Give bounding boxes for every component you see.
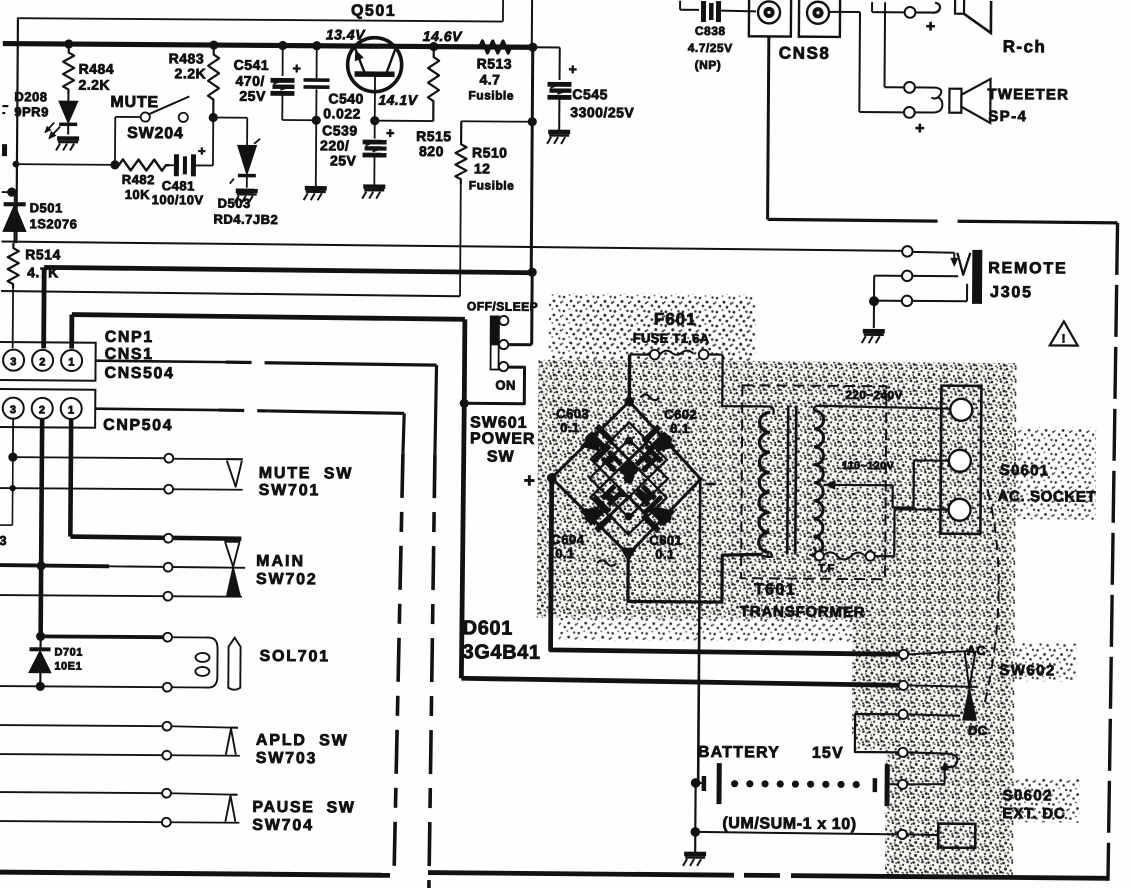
wire C481 up to SW204 node — [212, 118, 214, 166]
node bridge top — [625, 397, 634, 406]
node bus-R484 — [64, 39, 73, 48]
svg-text:D501: D501 — [30, 200, 63, 215]
fuse F601 — [630, 353, 650, 355]
terminal SW701 bottom — [164, 485, 173, 494]
node bus-C540 — [312, 41, 321, 50]
svg-text:14.6V: 14.6V — [423, 28, 463, 44]
ground battery — [694, 832, 696, 852]
wire SW703 row2 — [0, 754, 163, 755]
svg-text:REMOTE: REMOTE — [988, 260, 1067, 278]
svg-text:F601: F601 — [654, 310, 697, 329]
wire SW601 net to SW602 AC2 — [461, 678, 903, 685]
svg-text:T601: T601 — [754, 581, 796, 598]
transistor Q501 — [347, 37, 401, 91]
svg-text:C603: C603 — [556, 406, 589, 421]
terminal SW704 bottom — [162, 818, 171, 827]
wire CNS8 A down to chain — [768, 36, 769, 219]
wire top edge to R-ch terminal — [871, 2, 873, 12]
ground below C545 — [548, 130, 570, 135]
node bridge bottom — [621, 548, 635, 560]
resistor R510 fusible — [455, 121, 466, 184]
wire SOL701 row1 thick — [41, 634, 164, 639]
svg-text:DC: DC — [968, 723, 988, 738]
svg-text:R482: R482 — [122, 172, 155, 187]
ground below C540 — [305, 186, 327, 191]
svg-text:+: + — [915, 120, 925, 137]
halftone shading SW602 label — [1014, 643, 1076, 681]
wire SW701 row1 — [13, 457, 165, 458]
wire bus out to C545 — [533, 46, 560, 48]
section border bottom right — [428, 873, 734, 876]
svg-text:C602: C602 — [664, 407, 697, 422]
transformer core — [787, 406, 788, 555]
svg-text:D208: D208 — [14, 89, 47, 104]
wire battery minus down — [694, 783, 697, 832]
wire SW702 row3 — [0, 595, 242, 597]
capacitor C539 — [374, 121, 376, 139]
resistor R484 — [63, 43, 74, 93]
thermal fuse T.F — [815, 551, 824, 560]
power switch SW601 body — [490, 315, 500, 344]
terminal SW602 c3 — [898, 710, 907, 719]
diode D501 — [7, 187, 16, 196]
wire CNP504 pin1 down to SW702 — [68, 419, 73, 537]
AC squiggle top — [640, 395, 659, 401]
svg-text:+: + — [386, 125, 395, 141]
resistor R483 — [208, 44, 220, 117]
svg-text:SOL701: SOL701 — [259, 648, 330, 665]
terminal REMOTE ring — [902, 271, 912, 281]
wire bridge plus output — [551, 478, 905, 654]
svg-text:SW204: SW204 — [127, 125, 184, 142]
wire SW601 mid to vertical — [509, 343, 532, 346]
resistor R514 — [8, 243, 19, 288]
switch SW703 contact — [226, 729, 236, 755]
wire Q501 base down — [374, 74, 376, 121]
wire SW703 row1 — [0, 725, 163, 726]
AC squiggle bottom — [597, 560, 616, 566]
diode D208 (LED) — [67, 92, 69, 102]
capacitor C541 — [282, 45, 284, 76]
wire SW204 left down to R482 — [114, 117, 116, 165]
svg-text:C838: C838 — [695, 24, 726, 38]
diode D701 — [39, 636, 41, 647]
svg-text:25V: 25V — [330, 152, 357, 168]
svg-text:15V: 15V — [812, 745, 844, 762]
terminal SW602 ac1 — [899, 650, 908, 659]
halftone shading AC socket label area — [1013, 427, 1096, 520]
node battery bottom — [690, 827, 700, 837]
switch SW602 blade — [964, 651, 975, 689]
svg-text:S0601: S0601 — [1000, 462, 1049, 479]
cable CNS504 turns down as divider — [435, 365, 437, 454]
wire SW601 on contact to D601 net — [464, 367, 524, 404]
capacitor C838 — [701, 1, 706, 22]
wire top edge to C838 — [679, 1, 681, 10]
ground below D503 — [236, 188, 258, 193]
svg-text:+: + — [926, 19, 936, 36]
wire SW701 row2 — [0, 488, 165, 489]
node bridge left — [547, 473, 556, 482]
wire main vertical 14.6V down — [531, 47, 533, 271]
wire remote ring — [874, 275, 902, 277]
node SW701 row1 — [8, 453, 17, 462]
wire bridge minus output down — [698, 479, 700, 783]
wire CNP504 pin2 down (thick) — [41, 418, 43, 636]
bridge rectifier D601 outline — [551, 401, 701, 555]
svg-text:2.2K: 2.2K — [175, 65, 207, 81]
jack contact arrow — [944, 769, 946, 784]
terminal SW701 top — [164, 454, 173, 463]
svg-text:3G4B41: 3G4B41 — [462, 641, 540, 664]
svg-text:C539: C539 — [322, 122, 358, 138]
socket terminal 220V — [950, 399, 972, 421]
svg-text:AC. SOCKET: AC. SOCKET — [998, 488, 1097, 506]
terminal SW602 c5 — [898, 780, 907, 789]
wire c3-c4 link — [855, 714, 899, 752]
svg-text:R514: R514 — [25, 246, 61, 262]
node bus-C541 — [278, 41, 287, 50]
svg-text:220~240V: 220~240V — [845, 388, 903, 402]
wire thick net y316 from CNS1 pin1 — [72, 315, 465, 320]
wire bottom row to c6 — [695, 832, 898, 834]
svg-text:100/10V: 100/10V — [152, 192, 204, 207]
bridge diode bottom-left — [579, 495, 611, 527]
svg-text:R484: R484 — [79, 61, 115, 77]
wire remote tip to jack — [912, 251, 954, 254]
node SW702 row2 junction — [37, 561, 46, 570]
svg-text:FUSE T1.6A: FUSE T1.6A — [633, 330, 710, 346]
svg-text:820: 820 — [419, 143, 444, 159]
svg-text:SW703: SW703 — [256, 750, 318, 767]
wire C540 node to ground — [315, 120, 317, 186]
node bus-R513 out — [528, 43, 537, 52]
svg-text:470/: 470/ — [235, 73, 264, 89]
svg-text:EXT. DC: EXT. DC — [1002, 805, 1065, 822]
wire tweeter top to speaker — [914, 87, 941, 98]
node SOL row top — [36, 632, 45, 641]
LED arrows D208 — [49, 126, 60, 138]
pin 2 CNP504 — [32, 398, 53, 419]
wire C541 bottom to C540 node — [282, 119, 316, 121]
halftone shading around F601 — [549, 293, 755, 364]
jack contact S0602 hook — [908, 752, 958, 767]
terminal SW602 c6 — [898, 830, 907, 839]
node Q501 base / C539 — [370, 116, 379, 125]
svg-text:R513: R513 — [477, 55, 513, 71]
wire SW704 row2 — [0, 821, 162, 822]
svg-text:2: 2 — [39, 404, 46, 416]
svg-text:D601: D601 — [463, 617, 513, 639]
section border bottom left — [0, 872, 390, 875]
svg-text:2: 2 — [39, 356, 46, 368]
pin 3 CNS1 — [3, 350, 24, 371]
svg-text:!: ! — [1061, 331, 1066, 345]
resistor R515 — [428, 46, 440, 121]
speaker R-ch horn — [955, 0, 964, 14]
wire fuse right down to primary — [722, 355, 768, 407]
svg-text:TRANSFORMER: TRANSFORMER — [740, 603, 866, 621]
halftone shading S0602 label — [1013, 778, 1079, 822]
Q501 callout box top line — [17, 18, 503, 21]
wire ring to V — [912, 275, 958, 277]
svg-text:SW702: SW702 — [256, 571, 318, 588]
svg-text:110~120V: 110~120V — [842, 460, 895, 472]
svg-text:3: 3 — [10, 356, 17, 368]
svg-text:D503: D503 — [218, 196, 251, 211]
svg-text:Q501: Q501 — [351, 2, 396, 19]
secondary tap arrow 110-120V — [824, 484, 893, 487]
terminal SW702 mid — [164, 563, 173, 572]
wire R510 branch — [461, 120, 532, 122]
svg-text:APLD SW: APLD SW — [256, 732, 349, 750]
svg-text:RD4.7JB2: RD4.7JB2 — [214, 212, 279, 227]
capacitor C601 symbol — [641, 506, 668, 533]
svg-text:3: 3 — [0, 533, 7, 548]
node remote ground — [869, 296, 879, 306]
bridge diode top-left — [580, 431, 612, 463]
terminal REMOTE tip — [902, 246, 912, 256]
svg-text:3: 3 — [10, 404, 17, 416]
svg-text:+: + — [569, 61, 578, 77]
wire SW204 to D503 — [213, 117, 247, 119]
switch SW702 contact — [224, 541, 240, 543]
svg-text:0.1: 0.1 — [555, 546, 575, 561]
speaker tweeter SP-4 — [949, 89, 961, 113]
transformer T601 secondary winding — [813, 411, 824, 555]
node bus-R483 — [209, 40, 218, 49]
svg-text:S0602: S0602 — [1002, 787, 1052, 804]
battery B601 — [696, 782, 702, 784]
svg-text:CNS504: CNS504 — [104, 365, 174, 382]
halftone shading main power area — [537, 360, 1017, 621]
capacitor C604 symbol — [587, 506, 614, 533]
solenoid SOL701 coil — [204, 637, 217, 687]
svg-text:1: 1 — [68, 357, 75, 369]
cable CNP504 dashed right — [95, 409, 218, 410]
svg-text:SP-4: SP-4 — [988, 108, 1027, 125]
wire thermal fuse to socket bottom — [874, 509, 948, 557]
wire bridge bottom to primary bottom — [628, 553, 761, 602]
svg-text:1S2076: 1S2076 — [29, 216, 77, 231]
svg-text:Fusible: Fusible — [469, 178, 515, 192]
svg-text:C540: C540 — [328, 90, 364, 106]
svg-text:SW601: SW601 — [470, 414, 528, 431]
ground below D208 — [57, 136, 79, 141]
terminal SOL701 bottom — [163, 683, 172, 692]
svg-text:(NP): (NP) — [695, 58, 722, 72]
terminal SW703 bottom — [162, 751, 171, 760]
wire R510 down to net — [459, 184, 462, 296]
node row2 crossing — [9, 485, 15, 491]
dashed link socket to SW602 — [983, 490, 999, 709]
svg-text:C601: C601 — [649, 533, 682, 548]
wire secondary top to socket 220-240V — [814, 406, 950, 412]
wire sleeve to jack body — [874, 300, 902, 302]
svg-text:MAIN: MAIN — [256, 553, 305, 570]
resistor R513 fusible — [458, 41, 533, 54]
switch SW704 contact — [225, 796, 235, 822]
capacitor C481 — [174, 154, 179, 176]
socket terminal 110V — [949, 450, 971, 472]
dashed box around T601 — [741, 385, 886, 579]
resistor R482 — [115, 159, 170, 170]
svg-text:PAUSE SW: PAUSE SW — [252, 799, 355, 817]
terminal tweeter minus — [904, 107, 915, 118]
svg-text:CNS8: CNS8 — [779, 43, 831, 62]
node SW601 net junction — [460, 399, 469, 408]
svg-text:9PR9: 9PR9 — [14, 104, 49, 119]
svg-text:0.022: 0.022 — [323, 105, 361, 121]
white pocket battery label — [691, 736, 856, 837]
terminal REMOTE sleeve — [902, 296, 912, 306]
capacitor C540 — [316, 45, 318, 78]
svg-text:T.F: T.F — [818, 563, 835, 575]
bridge inner diode arrows — [620, 461, 629, 479]
svg-text:25V: 25V — [239, 88, 266, 104]
wire thin net y294 — [1, 291, 460, 296]
Q501 callout box right riser — [502, 0, 504, 22]
wire ac2 to blade — [908, 685, 976, 686]
ground remote — [873, 301, 875, 328]
transformer T601 primary winding — [768, 406, 774, 414]
svg-text:(UM/SUM-1 x 10): (UM/SUM-1 x 10) — [722, 815, 856, 833]
wire SW704 row1 — [0, 792, 163, 793]
pin 8 CNS8 — [758, 1, 780, 23]
wire horizontal net y242 — [1, 242, 902, 251]
wire c3 row to blade — [908, 714, 960, 715]
wire pin3 branch down to left edge — [11, 457, 13, 525]
pin 2 CNS1 — [32, 350, 53, 371]
terminal SOL701 top — [163, 633, 172, 642]
svg-text:+: + — [293, 60, 302, 76]
svg-text:POWER: POWER — [470, 430, 536, 447]
svg-text:4.7: 4.7 — [479, 71, 500, 87]
node left rail y168 — [13, 161, 20, 168]
svg-text:2.2K: 2.2K — [78, 77, 110, 93]
node y270 to SW601 vertical — [528, 268, 537, 277]
wire SOL701 row2 — [0, 686, 163, 687]
svg-text:C481: C481 — [162, 178, 195, 193]
warning triangle — [1050, 321, 1078, 345]
svg-text:D701: D701 — [54, 646, 82, 658]
wire thick net y270 from CNS1 pin2 — [44, 267, 532, 272]
terminal SW601 on — [499, 362, 508, 371]
wire R515 bottom to base node — [375, 120, 433, 122]
wire tap to socket mid — [893, 460, 949, 507]
pin 3 CNP504 — [3, 398, 24, 419]
svg-text:12: 12 — [474, 160, 491, 176]
bridge diode top-right — [644, 432, 676, 464]
svg-text:BATTERY: BATTERY — [698, 744, 780, 762]
svg-text:TWEETER: TWEETER — [987, 86, 1069, 104]
wire top edge tweeter feed — [883, 2, 886, 87]
switch SW701 contact — [226, 458, 243, 460]
cable CNS1 dashed right — [96, 361, 226, 362]
bridge inner lattice diamonds — [589, 422, 668, 535]
terminal tweeter plus — [904, 82, 915, 93]
svg-text:220/: 220/ — [320, 137, 349, 153]
pin 1 CNP504 — [61, 398, 82, 419]
svg-text:Fusible: Fusible — [468, 88, 514, 102]
wire SOL701 top to coil — [172, 636, 205, 638]
node R482 left — [110, 160, 119, 169]
svg-text:0.1: 0.1 — [560, 420, 580, 435]
svg-text:MUTE SW: MUTE SW — [259, 465, 354, 483]
bridge center blobs — [606, 455, 614, 463]
jack spring V — [957, 253, 970, 275]
svg-text:0.1: 0.1 — [670, 421, 690, 436]
zener diode D503 — [238, 146, 256, 174]
terminal SW702 top — [164, 534, 173, 543]
mute switch SW204 — [115, 116, 140, 118]
svg-text:SW602: SW602 — [999, 662, 1055, 679]
wire tweeter bottom link — [914, 97, 942, 112]
svg-text:14.1V: 14.1V — [378, 92, 418, 108]
AC socket S0601 box — [940, 386, 981, 534]
svg-text:C545: C545 — [572, 86, 608, 102]
left edge clipped marks — [2, 105, 8, 107]
svg-text:R515: R515 — [416, 128, 452, 144]
socket terminal common — [948, 499, 970, 521]
section border top chain — [768, 219, 938, 221]
terminal SW702 bottom — [163, 592, 172, 601]
node battery minus — [691, 778, 701, 788]
connector CNS1/CNP1 box — [0, 342, 96, 381]
jack sleeve bar — [972, 250, 982, 304]
pin 6 CNS8 — [807, 2, 829, 24]
terminal SW704 top — [162, 789, 171, 798]
svg-text:0.1: 0.1 — [655, 547, 675, 562]
connector CNP504 box — [0, 389, 95, 428]
wire CNS8 B to tweeter column — [829, 11, 860, 13]
wire fuse left down to bridge top — [628, 354, 632, 401]
node C540 bottom — [312, 116, 321, 125]
svg-text:+: + — [198, 143, 206, 158]
svg-text:J305: J305 — [990, 284, 1033, 301]
wire R-ch to speaker — [915, 2, 940, 12]
bridge inner cap bars — [601, 450, 624, 473]
bridge diode bottom-right — [644, 495, 676, 527]
capacitor C603 symbol — [588, 424, 615, 451]
svg-text:4.7/25V: 4.7/25V — [688, 41, 733, 55]
svg-text:R483: R483 — [169, 50, 205, 66]
cable CNP504 turns down as divider — [403, 413, 404, 454]
svg-text:+: + — [524, 471, 536, 492]
wire primary bottom hook — [761, 552, 772, 557]
svg-text:OFF/SLEEP: OFF/SLEEP — [467, 299, 538, 313]
svg-text:C604: C604 — [551, 532, 584, 547]
wire main supply bus 13.4V/14.6V rail — [3, 44, 535, 48]
svg-text:ON: ON — [495, 378, 516, 393]
connector CNS8 box A — [749, 0, 791, 37]
wire ac1 to blade — [909, 650, 971, 654]
svg-text:CNP1: CNP1 — [105, 329, 154, 346]
node SOL row bottom — [36, 682, 45, 691]
terminal SW703 top — [163, 722, 172, 731]
terminal SW601 mid — [499, 340, 508, 349]
solenoid SOL701 plunger — [228, 638, 240, 690]
svg-text:R-ch: R-ch — [1003, 37, 1047, 56]
svg-text:C541: C541 — [234, 57, 270, 73]
wire y168 from left rail — [16, 163, 115, 166]
section border right vertical — [1108, 223, 1118, 881]
pin 1 CNS1 — [61, 350, 82, 371]
halftone shading EXT.DC column — [885, 750, 1014, 877]
node bus-R515 — [429, 42, 438, 51]
capacitor C602 symbol — [642, 424, 669, 451]
svg-text:10E1: 10E1 — [54, 660, 82, 672]
